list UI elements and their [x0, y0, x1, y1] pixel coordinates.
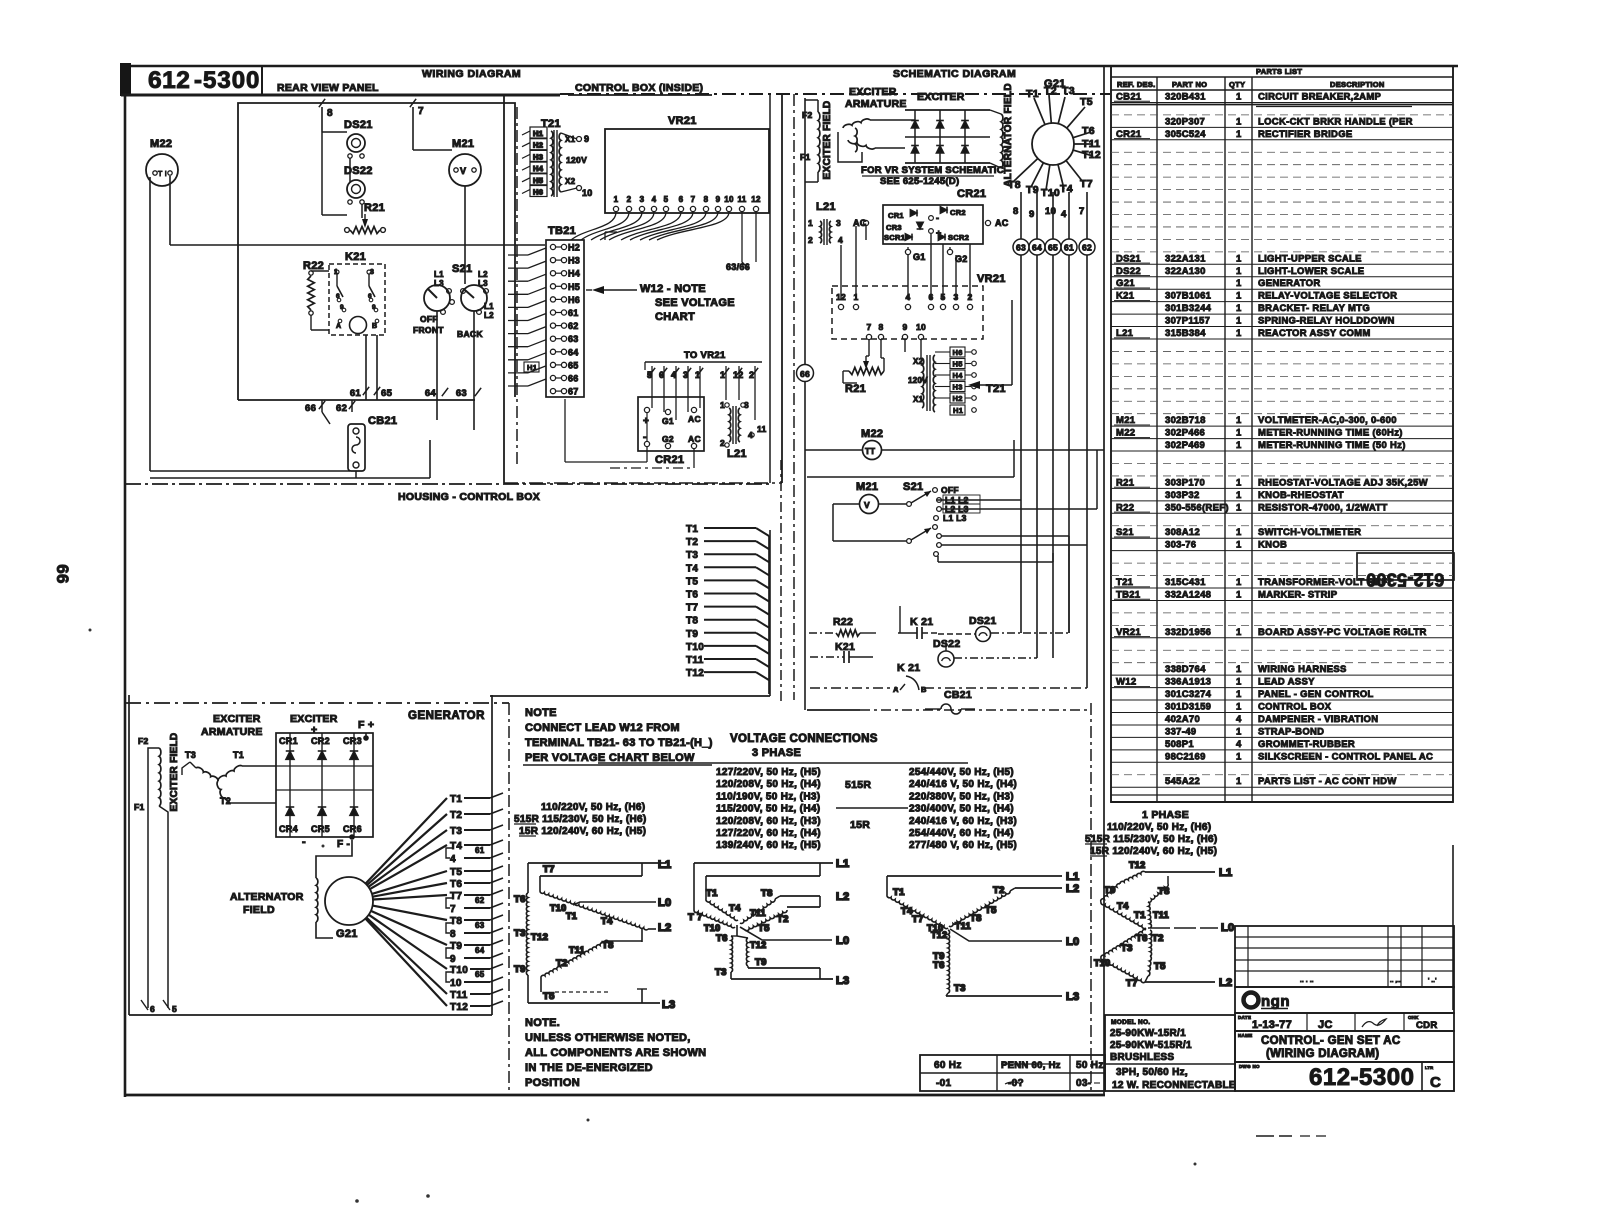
svg-text:L1: L1 [658, 859, 671, 871]
svg-text:H2: H2 [953, 394, 963, 403]
svg-text:61: 61 [350, 388, 362, 399]
svg-text:T2: T2 [1044, 85, 1057, 97]
svg-text:3: 3 [953, 292, 958, 302]
svg-text:DS21: DS21 [969, 615, 996, 627]
svg-text:T7: T7 [450, 891, 462, 902]
svg-text:-0?: -0? [1008, 1078, 1024, 1089]
svg-text:T4: T4 [729, 903, 741, 914]
svg-text:120/208V, 50 Hz, (H4): 120/208V, 50 Hz, (H4) [716, 779, 821, 790]
title block date row 1-13-77 JC CDR [1235, 1013, 1454, 1031]
svg-text:AC: AC [688, 434, 701, 444]
svg-text:1: 1 [853, 292, 858, 302]
svg-text:T4: T4 [601, 916, 613, 927]
svg-text:T5: T5 [1080, 96, 1093, 108]
winding diagram 4 (single phase) [1094, 860, 1234, 989]
svg-text:3PH, 50/60 Hz,: 3PH, 50/60 Hz, [1116, 1067, 1188, 1078]
svg-text:CDR: CDR [1416, 1020, 1437, 1031]
svg-text:T3: T3 [185, 750, 196, 760]
svg-text:GENERATOR: GENERATOR [1258, 278, 1321, 289]
svg-text:25-90KW-15R/1: 25-90KW-15R/1 [1110, 1028, 1186, 1039]
svg-text:HOUSING - CONTROL BOX: HOUSING - CONTROL BOX [398, 491, 540, 503]
svg-text:TT: TT [865, 447, 875, 456]
svg-text:W12: W12 [1116, 677, 1136, 688]
svg-text:SEE 625-1245(D): SEE 625-1245(D) [880, 176, 959, 187]
svg-text:NOTE: NOTE [525, 707, 557, 719]
svg-text:BOARD ASSY-PC VOLTAGE RGLTR: BOARD ASSY-PC VOLTAGE RGLTR [1258, 627, 1427, 638]
svg-text:EXCITER FIELD: EXCITER FIELD [822, 101, 833, 180]
svg-text:9: 9 [902, 322, 907, 332]
svg-text:H1: H1 [527, 363, 537, 372]
svg-text:320P307: 320P307 [1165, 116, 1205, 127]
svg-text:1: 1 [1236, 328, 1242, 339]
svg-text:R21: R21 [364, 202, 385, 214]
svg-text:IN THE DE-ENERGIZED: IN THE DE-ENERGIZED [525, 1062, 653, 1074]
svg-text:PARTS LIST: PARTS LIST [1256, 67, 1302, 76]
svg-text:10: 10 [450, 978, 462, 989]
svg-text:12: 12 [836, 292, 846, 302]
svg-text:62: 62 [1082, 243, 1092, 253]
svg-text:-: - [302, 836, 306, 848]
svg-text:2: 2 [720, 438, 725, 448]
svg-text:L0: L0 [1066, 936, 1079, 948]
svg-text:T6: T6 [1082, 125, 1095, 137]
svg-text:K21: K21 [345, 251, 366, 263]
exciter rectifier bridge diodes (schematic) [905, 109, 990, 111]
svg-text:1: 1 [1236, 477, 1242, 488]
svg-text:L1 L3: L1 L3 [943, 513, 967, 523]
svg-text:F1: F1 [134, 802, 145, 812]
svg-text:L2: L2 [1066, 883, 1079, 895]
svg-text:T1: T1 [450, 794, 462, 805]
svg-text:REAR VIEW PANEL: REAR VIEW PANEL [277, 82, 379, 94]
svg-text:ALTERNATOR FIELD: ALTERNATOR FIELD [1003, 83, 1014, 187]
svg-text:T1: T1 [686, 524, 698, 535]
wire from M22 right terminal to TB21 [169, 176, 171, 245]
svg-text:AC: AC [688, 414, 701, 424]
svg-text:RHEOSTAT-VOLTAGE ADJ 35K,25W: RHEOSTAT-VOLTAGE ADJ 35K,25W [1258, 477, 1428, 488]
svg-text:CR21: CR21 [957, 188, 986, 200]
svg-text:CR3: CR3 [343, 736, 362, 746]
svg-text:1: 1 [1236, 91, 1242, 102]
wires CR21 and L21 into VR21 (schematic) [841, 223, 970, 300]
svg-text:T10: T10 [550, 903, 566, 913]
svg-text:L21: L21 [727, 448, 747, 460]
winding diagram 1 lower chain T2 T11 T8 [541, 940, 608, 978]
svg-text:65: 65 [568, 360, 579, 370]
svg-text:H4: H4 [533, 164, 544, 173]
svg-text:508P1: 508P1 [1165, 739, 1194, 750]
svg-text:ALTERNATOR: ALTERNATOR [230, 891, 304, 903]
circled wire number 65 [1045, 239, 1061, 255]
svg-text:110/220V, 50 Hz, (H6): 110/220V, 50 Hz, (H6) [1107, 822, 1211, 833]
svg-text:T6: T6 [686, 590, 698, 601]
svg-text:T8: T8 [1008, 179, 1021, 191]
svg-text:METER-RUNNING TIME (50 Hz): METER-RUNNING TIME (50 Hz) [1258, 440, 1406, 451]
right margin vertical line [1452, 845, 1454, 1010]
svg-text:63: 63 [1016, 243, 1026, 253]
svg-text:612-5300: 612-5300 [1309, 1064, 1414, 1091]
svg-text:1: 1 [1236, 440, 1242, 451]
svg-text:DESCRIPTION: DESCRIPTION [1330, 80, 1385, 89]
svg-text:63: 63 [475, 921, 485, 930]
drawing sheet border frame [120, 63, 1458, 1097]
svg-text:G1: G1 [913, 252, 926, 262]
wire labels 1 12 2 to L21 [723, 368, 729, 376]
svg-text:1: 1 [720, 370, 725, 380]
svg-text:5: 5 [664, 195, 669, 204]
svg-text:TO VR21: TO VR21 [684, 350, 726, 361]
svg-text:.. ,..: .. ,.. [1390, 978, 1401, 984]
svg-text:S21: S21 [903, 481, 923, 493]
svg-text:3: 3 [836, 218, 841, 228]
svg-text:MARKER- STRIP: MARKER- STRIP [1258, 589, 1338, 600]
svg-text:CR3: CR3 [886, 223, 902, 232]
svg-text:G2: G2 [955, 254, 968, 264]
svg-text:M22: M22 [150, 138, 172, 150]
svg-text:8: 8 [704, 195, 709, 204]
svg-text:7: 7 [1079, 206, 1085, 217]
svg-text:T11: T11 [955, 921, 971, 931]
svg-text:4: 4 [652, 195, 657, 204]
svg-text:67: 67 [568, 387, 579, 397]
svg-text:H6: H6 [953, 348, 963, 357]
svg-text:F +: F + [358, 719, 374, 731]
svg-text:JC: JC [1318, 1019, 1333, 1031]
svg-text:3: 3 [640, 195, 645, 204]
svg-text:EXCITER: EXCITER [213, 713, 261, 725]
svg-text:1: 1 [1236, 664, 1242, 675]
svg-text:240/416 V, 60 Hz, (H3): 240/416 V, 60 Hz, (H3) [909, 816, 1017, 827]
svg-text:T7: T7 [912, 914, 924, 925]
svg-text:NAME: NAME [1238, 1033, 1252, 1038]
svg-text:T12: T12 [686, 668, 704, 679]
svg-text:11: 11 [737, 195, 746, 204]
svg-text:CONTROL BOX (INSIDE): CONTROL BOX (INSIDE) [575, 82, 703, 94]
svg-text:T12: T12 [531, 932, 548, 943]
svg-text:L2: L2 [836, 891, 849, 903]
model number block [1105, 1015, 1235, 1091]
svg-text:1: 1 [614, 195, 619, 204]
svg-text:CR2: CR2 [311, 736, 330, 746]
svg-text:M21: M21 [452, 138, 474, 150]
control box outer border [503, 94, 505, 483]
title block drawing number 612-5300 rev C [1235, 1062, 1454, 1091]
alternator field coil (schematic) [1001, 114, 1003, 168]
svg-text:1: 1 [1236, 689, 1242, 700]
svg-text:FRONT: FRONT [413, 325, 444, 335]
svg-text:322A130: 322A130 [1165, 266, 1206, 277]
svg-text:H2: H2 [533, 141, 543, 150]
frequency variant table 60Hz PENN 50Hz [920, 1055, 1105, 1091]
winding diagram 1 left leg coils T6 T3 T9 [527, 863, 529, 893]
svg-text:612: 612 [148, 67, 190, 94]
svg-text:1: 1 [1236, 490, 1242, 501]
svg-text:VOLTAGE CONNECTIONS: VOLTAGE CONNECTIONS [730, 733, 878, 745]
svg-text:L3: L3 [1066, 991, 1079, 1003]
svg-text:T2: T2 [450, 810, 462, 821]
svg-text:T2: T2 [556, 958, 568, 969]
svg-text:L21: L21 [816, 201, 836, 213]
svg-text:L0: L0 [1221, 922, 1234, 934]
svg-text:B: B [921, 685, 927, 694]
svg-text:25-90KW-515R/1: 25-90KW-515R/1 [1110, 1040, 1192, 1051]
svg-text:H4: H4 [568, 269, 580, 279]
svg-text:9: 9 [450, 954, 456, 965]
svg-text:L1: L1 [836, 858, 849, 870]
circled wire number 64 [1029, 239, 1045, 255]
Onan logo box [1235, 987, 1454, 1013]
H1 tag near TB21 [524, 362, 539, 372]
svg-text:303P32: 303P32 [1165, 490, 1200, 501]
svg-text:-: - [936, 213, 939, 223]
svg-text:11: 11 [757, 424, 767, 434]
svg-text:T6: T6 [933, 960, 945, 971]
svg-text:15R: 15R [850, 819, 870, 831]
schematic lower left rail and bottom wires [807, 709, 860, 711]
svg-text:RECTIFIER BRIDGE: RECTIFIER BRIDGE [1258, 129, 1353, 140]
svg-text:61: 61 [475, 846, 485, 855]
svg-text:CONTROL BOX: CONTROL BOX [1258, 702, 1332, 713]
svg-text:CR1: CR1 [279, 736, 298, 746]
svg-text:NOTE.: NOTE. [525, 1017, 560, 1029]
svg-text:127/220V, 60 Hz, (H4): 127/220V, 60 Hz, (H4) [716, 828, 821, 839]
svg-text:F1: F1 [800, 152, 811, 162]
svg-text:CR4: CR4 [279, 824, 298, 834]
svg-text:M22: M22 [861, 428, 883, 440]
svg-text:T5: T5 [985, 905, 997, 916]
svg-text:2: 2 [627, 195, 632, 204]
svg-text:DS22: DS22 [344, 165, 373, 177]
svg-text:115/200V, 50 Hz, (H4): 115/200V, 50 Hz, (H4) [716, 804, 820, 815]
svg-text:1: 1 [1236, 527, 1242, 538]
wire 8 entering panel box [319, 99, 325, 107]
svg-text:AC: AC [995, 218, 1009, 228]
svg-text:120/208V, 60 Hz, (H3): 120/208V, 60 Hz, (H3) [716, 816, 821, 827]
note box dashed border [508, 703, 510, 1095]
svg-text:T2: T2 [1152, 933, 1164, 944]
svg-text:254/440V, 60 Hz, (H4): 254/440V, 60 Hz, (H4) [909, 828, 1014, 839]
svg-text:SCR2: SCR2 [948, 233, 969, 242]
svg-text:K21: K21 [835, 641, 855, 653]
winding diagram 3 (wye 254/440) [887, 871, 1079, 1003]
svg-text:9: 9 [716, 195, 721, 204]
svg-text:L1: L1 [1066, 871, 1079, 883]
svg-text:63: 63 [456, 388, 467, 399]
svg-text:-01: -01 [936, 1078, 951, 1089]
svg-text:SCR1: SCR1 [884, 233, 905, 242]
svg-text:-5300: -5300 [194, 67, 260, 94]
svg-text:1: 1 [1236, 129, 1242, 140]
svg-text:CHART: CHART [655, 311, 695, 323]
svg-text:POSITION: POSITION [525, 1077, 580, 1089]
generator section box [128, 695, 130, 1015]
svg-text:' ..': ' ..' [1428, 978, 1437, 984]
bridge output wires F+ F- (generator) [365, 733, 367, 738]
svg-text:402A70: 402A70 [1165, 714, 1200, 725]
svg-text:66: 66 [53, 564, 72, 584]
svg-text:1: 1 [1236, 266, 1242, 277]
svg-text:BACK: BACK [457, 329, 483, 339]
svg-text:1: 1 [1236, 278, 1242, 289]
generator field leads 6 and 5 [148, 748, 159, 1008]
svg-text:305C524: 305C524 [1165, 129, 1206, 140]
svg-text:1: 1 [1236, 702, 1242, 713]
parts list rows [1111, 91, 1453, 787]
svg-text:FOR VR SYSTEM SCHEMATIC: FOR VR SYSTEM SCHEMATIC [861, 165, 1004, 176]
svg-text:301D3159: 301D3159 [1165, 702, 1211, 713]
svg-text:62: 62 [568, 321, 579, 331]
svg-text:BRUSHLESS: BRUSHLESS [1110, 1052, 1174, 1063]
svg-text:12: 12 [751, 195, 761, 204]
svg-text:CR5: CR5 [311, 824, 330, 834]
svg-text:2: 2 [749, 370, 754, 380]
svg-text:FIELD: FIELD [243, 904, 275, 916]
svg-text:PANEL - GEN CONTROL: PANEL - GEN CONTROL [1258, 689, 1374, 700]
M21 S21 connection wires [833, 503, 860, 505]
svg-text:L0: L0 [836, 935, 849, 947]
svg-text:1: 1 [808, 218, 813, 228]
svg-text:H1: H1 [953, 406, 963, 415]
wire DS21 to DS22 to R21 [349, 158, 351, 182]
svg-text:T3: T3 [686, 550, 698, 561]
svg-text:DWG NO: DWG NO [1239, 1064, 1260, 1069]
svg-text:60 Hz: 60 Hz [934, 1060, 962, 1071]
svg-text:X1: X1 [913, 395, 924, 404]
svg-text:62: 62 [336, 403, 347, 414]
svg-text:66: 66 [568, 374, 579, 384]
winding diagram 3 L0 branch [950, 929, 1062, 941]
svg-text:T21: T21 [541, 118, 561, 130]
svg-text:GENERATOR: GENERATOR [408, 710, 485, 722]
svg-text:H1: H1 [533, 129, 543, 138]
svg-text:307P1157: 307P1157 [1165, 316, 1210, 327]
svg-text:H3: H3 [533, 152, 543, 161]
svg-text:63: 63 [568, 334, 579, 344]
svg-text:350-556(REF): 350-556(REF) [1165, 502, 1229, 513]
svg-text:UNLESS OTHERWISE NOTED,: UNLESS OTHERWISE NOTED, [525, 1032, 691, 1044]
svg-text:301C3274: 301C3274 [1165, 689, 1212, 700]
svg-text:64: 64 [425, 388, 437, 399]
svg-text:T5: T5 [450, 867, 462, 878]
svg-text:KNOB-RHEOSTAT: KNOB-RHEOSTAT [1258, 490, 1344, 501]
svg-text:2: 2 [967, 292, 972, 302]
svg-text:T7: T7 [543, 864, 555, 875]
svg-text:4: 4 [905, 292, 910, 302]
title block title CONTROL-GEN SET AC (WIRING DIAGRAM) [1235, 1031, 1454, 1062]
svg-text:307B1061: 307B1061 [1165, 291, 1212, 302]
svg-text:SEE VOLTAGE: SEE VOLTAGE [655, 297, 735, 309]
wire from M22 left terminal down to CB21 bottom [149, 177, 151, 471]
svg-text:X2: X2 [565, 177, 576, 186]
svg-text:ngn: ngn [1261, 993, 1290, 1010]
svg-text:WIRING HARNESS: WIRING HARNESS [1258, 664, 1347, 675]
svg-text:REF. DES.: REF. DES. [1117, 80, 1156, 89]
svg-text:65: 65 [1048, 243, 1058, 253]
svg-text:9: 9 [584, 134, 589, 144]
svg-text:1: 1 [1236, 726, 1242, 737]
svg-text:LIGHT-LOWER SCALE: LIGHT-LOWER SCALE [1258, 266, 1364, 277]
svg-text:302B718: 302B718 [1165, 415, 1206, 426]
svg-text:110/220V, 50 Hz, (H6): 110/220V, 50 Hz, (H6) [541, 802, 645, 813]
svg-text:T11: T11 [1153, 910, 1169, 920]
svg-text:LIGHT-UPPER SCALE: LIGHT-UPPER SCALE [1258, 253, 1362, 264]
svg-text:CR21: CR21 [655, 454, 684, 466]
winding diagram 4 L0 [1148, 927, 1218, 929]
svg-text:T12: T12 [1082, 149, 1101, 161]
winding diagram 2 (three phase wye) [688, 858, 849, 987]
svg-text:CR6: CR6 [343, 824, 362, 834]
svg-text:315B384: 315B384 [1165, 328, 1206, 339]
svg-text:A: A [336, 323, 341, 330]
svg-text:T1: T1 [1134, 910, 1146, 921]
svg-text:V: V [864, 500, 870, 510]
svg-text:T8: T8 [450, 916, 462, 927]
svg-text:T3: T3 [954, 983, 966, 994]
svg-text:L1: L1 [484, 302, 494, 311]
circled wire number 63 [1013, 239, 1029, 255]
svg-text:6: 6 [679, 195, 684, 204]
svg-text:4: 4 [1061, 209, 1067, 220]
svg-text:1: 1 [1236, 291, 1242, 302]
bracket pairs for taps 4 7 8 9 10 [446, 848, 452, 858]
svg-text:T2: T2 [993, 885, 1005, 896]
svg-text:1: 1 [1236, 751, 1242, 762]
svg-text:50 Hz: 50 Hz [1076, 1060, 1104, 1071]
svg-text:T12: T12 [1129, 860, 1145, 870]
svg-text:66: 66 [800, 369, 810, 379]
svg-text:12: 12 [733, 370, 744, 380]
schematic lower box for meters [807, 476, 1014, 478]
svg-text:H6: H6 [533, 188, 543, 197]
svg-text:303P170: 303P170 [1165, 477, 1205, 488]
svg-text:T12: T12 [450, 1002, 468, 1013]
svg-text:SCHEMATIC DIAGRAM: SCHEMATIC DIAGRAM [893, 68, 1016, 80]
svg-text:H4: H4 [953, 371, 964, 380]
circled 66 wire number (schematic left rail) [797, 365, 814, 382]
svg-text:L1: L1 [434, 270, 444, 279]
svg-text:T5: T5 [543, 991, 555, 1002]
svg-text:PART NO: PART NO [1172, 80, 1207, 89]
svg-text:C: C [1430, 1074, 1441, 1091]
svg-text:T8: T8 [686, 616, 698, 627]
svg-text:T3: T3 [514, 928, 526, 939]
revision block grid [1235, 926, 1454, 987]
svg-text:1: 1 [1236, 577, 1242, 588]
svg-text:7: 7 [450, 904, 456, 915]
svg-text:T3: T3 [1121, 943, 1133, 954]
svg-text:WIRING DIAGRAM: WIRING DIAGRAM [422, 68, 521, 80]
svg-text:10: 10 [1045, 206, 1056, 217]
S21 second pole (schematic) [907, 539, 912, 544]
svg-text:8: 8 [327, 108, 333, 119]
svg-text:METER-RUNNING TIME (60Hz): METER-RUNNING TIME (60Hz) [1258, 428, 1403, 439]
svg-text:T8: T8 [1158, 886, 1170, 897]
parts table bottom heavy border [1111, 801, 1453, 803]
svg-text:T7: T7 [1080, 178, 1093, 190]
winding diagram 3 down coil T12 T9 T6 T3 [948, 930, 950, 993]
rectifier bridge CR21 (control box) [638, 397, 704, 451]
svg-text:STRAP-BOND: STRAP-BOND [1258, 726, 1324, 737]
svg-text:OFF: OFF [941, 485, 959, 495]
svg-text:T6: T6 [450, 879, 462, 890]
svg-text:308A12: 308A12 [1165, 527, 1200, 538]
svg-text:L1: L1 [1219, 867, 1232, 879]
switch S21 back rotary [461, 285, 487, 311]
svg-text:T10: T10 [686, 642, 704, 653]
svg-text:322A131: 322A131 [1165, 253, 1206, 264]
svg-text:10: 10 [724, 195, 734, 204]
svg-text:R22: R22 [833, 616, 853, 628]
